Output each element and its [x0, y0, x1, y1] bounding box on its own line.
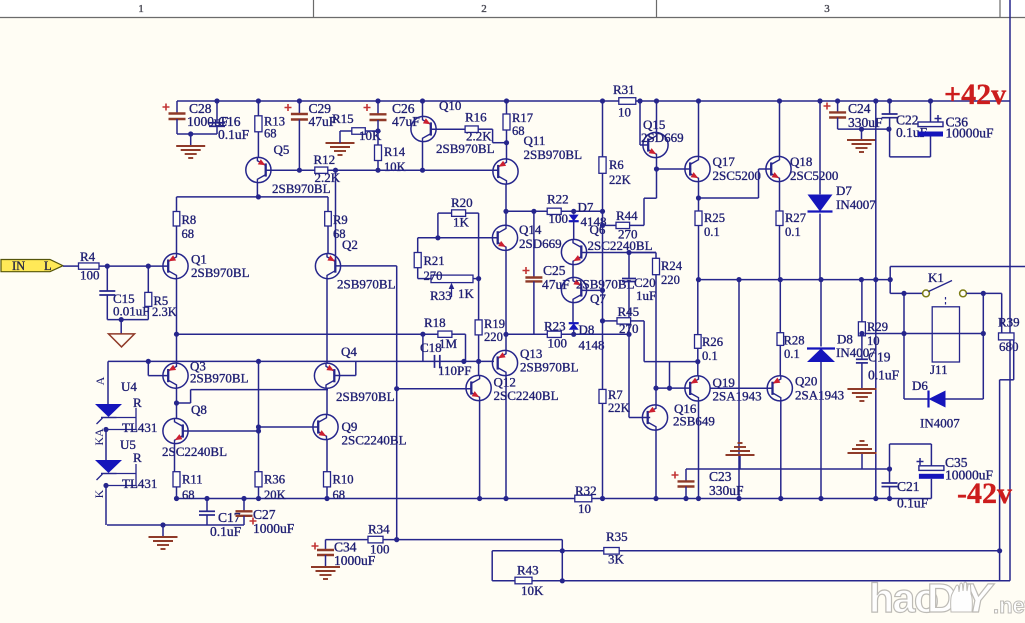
capacitor C24 (electrolytic) — [829, 111, 846, 113]
svg-text:R44: R44 — [616, 208, 638, 223]
resistor R31 — [619, 98, 636, 105]
wire C15 top wire — [106, 266, 108, 291]
svg-text:1M: 1M — [439, 336, 458, 351]
wire C25 bottom wire — [533, 281, 535, 334]
wire invgnd1 stub — [739, 455, 741, 469]
svg-text:1000uF: 1000uF — [334, 553, 376, 568]
wire R20 left vertical — [437, 213, 439, 238]
node earth node — [119, 317, 124, 322]
wire R18/C18 left vertical — [422, 334, 424, 361]
node R43/link node — [560, 578, 565, 583]
transistor Q8 — [163, 418, 188, 443]
wire ground row stub — [162, 525, 164, 537]
wire VAS top row — [506, 210, 603, 212]
wire C21 vertical top — [889, 444, 891, 483]
wire C26 top — [377, 101, 379, 114]
capacitor C34 (electrolytic) — [317, 549, 334, 551]
wire R16 jog down — [492, 129, 494, 143]
node Q8 base node — [256, 428, 261, 433]
wire R33 right wire — [473, 278, 479, 280]
node R6 rail node — [600, 98, 605, 103]
node Q8 base tap — [256, 359, 261, 364]
resistor R6 — [599, 157, 606, 174]
wire Q3 base jog down — [147, 361, 149, 375]
svg-text:10000uF: 10000uF — [946, 126, 995, 141]
wire Q18 base jog up — [758, 169, 760, 198]
wire R45 left wire — [603, 320, 618, 322]
svg-text:100: 100 — [548, 336, 568, 351]
svg-text:0.1: 0.1 — [784, 347, 800, 361]
node R14/base node — [375, 168, 380, 173]
resistor R15 — [352, 128, 366, 135]
wire C27 bottom wire — [243, 516, 245, 525]
node D7s top node — [571, 209, 576, 214]
resistor R21 — [414, 253, 421, 268]
wire U5 to ground row — [105, 486, 107, 526]
node C26 rail node — [375, 98, 380, 103]
wire speaker line — [890, 266, 1025, 268]
wire Q1 collector row — [177, 333, 438, 335]
wire C28 top — [176, 101, 178, 114]
wire C23 ground row — [686, 468, 890, 470]
transistor Q17 — [685, 156, 710, 181]
wire C22 bottom wire — [889, 118, 891, 157]
wire Q8 emitter to R11 — [174, 444, 176, 472]
wire C23 bottom wire — [685, 487, 687, 499]
resistor R22 — [547, 208, 561, 214]
wire Q6 to Q7 — [572, 265, 574, 278]
svg-text:2SA1943: 2SA1943 — [795, 388, 844, 403]
node R27/R28 node — [778, 277, 783, 282]
wire C16 top — [216, 101, 218, 123]
node R7 rail node — [600, 496, 605, 501]
transistor Q9 — [313, 414, 338, 439]
wire VAS vertical — [602, 211, 604, 389]
wire R39 left vertical — [1001, 293, 1003, 333]
svg-text:R33: R33 — [430, 288, 452, 303]
svg-text:K1: K1 — [928, 270, 944, 285]
wire C27 top wire — [243, 499, 245, 512]
resistor R19 — [475, 320, 482, 335]
node C22/C24 node — [886, 127, 891, 132]
wire Q20 base wire — [711, 387, 773, 389]
node R17 rail node — [504, 98, 509, 103]
sheet right border — [1009, 0, 1011, 581]
wire R5 bottom wire — [147, 306, 149, 319]
node C28 ground node — [188, 131, 193, 136]
transistor Q6 — [561, 239, 586, 264]
node coil right node — [981, 331, 986, 336]
diode D8 (IN4007) — [807, 349, 835, 363]
capacitor C26 (electrolytic) — [370, 113, 387, 115]
capacitor C28 (electrolytic) — [169, 112, 186, 114]
wire R44 jog up — [643, 198, 645, 225]
svg-text:680: 680 — [999, 339, 1019, 354]
svg-text:4148: 4148 — [579, 338, 605, 353]
node input node — [105, 264, 110, 269]
node C20 top node — [626, 250, 631, 255]
node C25 wire node — [503, 332, 508, 337]
wire Q16 base wire — [629, 417, 650, 419]
wire D7s to Q6 — [573, 221, 575, 239]
node C27 rail node — [241, 496, 246, 501]
svg-text:D7: D7 — [578, 200, 594, 215]
node C29/base node — [297, 168, 302, 173]
wire Q14 emitter top — [505, 211, 507, 225]
wire R20 left wire — [438, 212, 452, 214]
wire D6 left wire — [904, 398, 929, 400]
svg-text:0.1uF: 0.1uF — [868, 368, 900, 383]
relay K1 right contact — [960, 290, 967, 297]
svg-text:R34: R34 — [368, 522, 390, 537]
svg-text:Q7: Q7 — [590, 291, 606, 306]
wire R29 top wire — [861, 280, 863, 322]
node U5 cathode node — [103, 483, 108, 488]
capacitor C21 — [882, 482, 898, 484]
wire R26 bottom wire — [697, 348, 699, 375]
wire R17 top — [506, 101, 508, 114]
wire Q10 emitter top — [422, 101, 424, 116]
wire R35 row — [492, 550, 604, 552]
svg-text:D7: D7 — [836, 183, 852, 198]
wire C17 bottom wire — [206, 515, 208, 525]
transistor Q18 — [766, 156, 791, 181]
wire R43 row — [492, 580, 1010, 582]
node coil tap — [901, 291, 906, 296]
capacitor C22 — [882, 113, 898, 115]
svg-text:270: 270 — [618, 227, 638, 242]
node Q16 rail node — [653, 496, 658, 501]
sheet header rule — [0, 17, 1025, 19]
transistor Q13 — [492, 350, 517, 375]
svg-text:68: 68 — [333, 488, 346, 502]
node C23 rail node — [683, 496, 688, 501]
wire R21 jog — [418, 237, 438, 239]
wire R44 right wire — [630, 224, 644, 226]
resistor R26 — [695, 335, 702, 349]
svg-text:0.1uF: 0.1uF — [897, 496, 929, 511]
ground right inverted (inverted) — [860, 440, 865, 442]
R33 wiper arrow — [451, 285, 453, 298]
node Q17/Q18 node — [696, 195, 701, 200]
wire Q15 base drop — [639, 101, 641, 145]
node R15/C26 node — [375, 128, 380, 133]
wire output to speaker up — [889, 267, 891, 294]
node ground row node — [160, 522, 165, 527]
svg-text:R28: R28 — [784, 334, 805, 348]
capacitor C23 (electrolytic) — [678, 480, 695, 482]
wire bias spreader row — [506, 333, 629, 335]
wire C20 vertical top — [628, 253, 630, 279]
wire Q9 bottom wire — [326, 440, 328, 472]
wire D6 left vertical — [903, 334, 905, 400]
wire R45 row — [644, 361, 698, 363]
wire R21 to R33 — [418, 278, 431, 280]
node R35 node — [560, 548, 565, 553]
svg-text:R15: R15 — [332, 111, 354, 126]
svg-text:R14: R14 — [384, 145, 406, 159]
wire R43 link — [491, 551, 493, 581]
capacitor C19 — [856, 358, 868, 360]
svg-text:330uF: 330uF — [848, 115, 883, 130]
input connector IN L — [1, 260, 63, 272]
wire D6 right vertical — [982, 293, 984, 399]
svg-text:47uF: 47uF — [392, 114, 420, 129]
node R33/R19 node — [476, 276, 481, 281]
node Q10 collector node — [420, 168, 425, 173]
wire R24 bottom wire — [655, 275, 657, 388]
resistor R43 — [515, 577, 532, 584]
relay K1 left contact — [923, 290, 930, 297]
node Q20 rail node — [778, 496, 783, 501]
svg-text:68: 68 — [264, 127, 277, 141]
wire Q9 top wire — [326, 388, 328, 414]
svg-text:R9: R9 — [333, 213, 348, 227]
wire contact to R39 wire — [966, 292, 1001, 294]
wire D6 right wire — [946, 398, 984, 400]
wire Q13 collector down — [505, 376, 507, 499]
transistor Q1 — [163, 254, 188, 279]
node Q17 base node — [654, 166, 659, 171]
ground main ground — [149, 536, 178, 538]
relay K1 armature — [929, 281, 953, 292]
wire R14 bottom — [377, 161, 379, 171]
ground under C24 — [847, 139, 876, 141]
svg-text:2SB970BL: 2SB970BL — [436, 141, 495, 156]
node C21 top node — [887, 466, 892, 471]
node Q3 base tap — [146, 359, 151, 364]
resistor R39 — [999, 333, 1015, 340]
wire R29 bottom wire — [861, 336, 863, 360]
wire R9 to Q2 — [327, 226, 329, 254]
wire +42v rail — [177, 100, 1010, 102]
node Q9 base tap — [256, 424, 261, 429]
svg-text:R12: R12 — [314, 152, 336, 167]
transistor Q10 — [411, 116, 436, 141]
svg-text:10K: 10K — [384, 160, 406, 174]
svg-text:R21: R21 — [424, 254, 445, 268]
wire R45 right wire — [631, 320, 645, 322]
wire Q18 base wire — [759, 168, 773, 170]
node R34 right node — [394, 537, 399, 542]
node mid link node — [736, 277, 741, 282]
svg-text:R19: R19 — [484, 317, 505, 331]
wire ladder link — [669, 362, 671, 389]
svg-text:2SB649: 2SB649 — [673, 414, 715, 429]
wire R39 right vertical — [1013, 340, 1015, 380]
resistor R28 — [777, 333, 784, 346]
node C17 rail node — [204, 496, 209, 501]
node R10 rail node — [324, 496, 329, 501]
node R45 node — [600, 318, 605, 323]
resistor R24 — [653, 258, 660, 274]
resistor R25 — [695, 211, 702, 226]
svg-text:C19: C19 — [868, 350, 891, 365]
svg-text:K: K — [92, 489, 106, 498]
transistor Q4 — [314, 363, 339, 388]
potentiometer R33 — [431, 275, 473, 283]
resistor R23 — [547, 331, 561, 337]
wire relay feed — [890, 292, 926, 294]
capacitor C20 — [622, 278, 636, 280]
wire Q16 top wire — [655, 388, 657, 405]
svg-text:1: 1 — [138, 3, 144, 15]
wire Q18 base jog — [699, 197, 759, 199]
node C25 top node — [531, 209, 536, 214]
svg-text:R27: R27 — [785, 211, 806, 225]
wire C20 vertical bottom — [628, 282, 630, 335]
wire R7 bottom wire — [602, 403, 604, 498]
wire Q3 collector down — [176, 388, 178, 418]
resistor R27 — [776, 211, 783, 226]
wire Q15 emitter jog — [644, 197, 657, 199]
wire Q15 base wire — [640, 144, 648, 146]
wire R39 to feedback — [999, 380, 1001, 581]
node Q15 collector rail node — [654, 98, 659, 103]
svg-text:C18: C18 — [420, 340, 442, 355]
svg-text:2SC2240BL: 2SC2240BL — [494, 388, 559, 403]
node bus rail node2 — [873, 496, 878, 501]
resistor R34 — [368, 536, 383, 543]
wire D7s top wire — [573, 211, 575, 214]
resistor R9 — [325, 212, 332, 227]
node R25/Q19 node — [696, 277, 701, 282]
wire ground row — [107, 524, 244, 526]
svg-text:R24: R24 — [661, 259, 683, 273]
svg-text:J11: J11 — [930, 362, 948, 377]
node C22 rail node — [887, 98, 892, 103]
wire feedback link — [561, 540, 563, 581]
svg-text:R39: R39 — [998, 315, 1020, 330]
node Q13 rail node — [503, 496, 508, 501]
wire C34 bottom wire — [325, 555, 327, 566]
node C20 bottom node — [626, 332, 631, 337]
svg-text:TL431: TL431 — [122, 420, 157, 435]
power ground input earth (earth triangle) — [109, 334, 135, 347]
diode D8 (4148) — [569, 323, 579, 330]
wire IN to R4 — [63, 265, 79, 267]
wire R25 bottom — [698, 226, 700, 280]
node Q3/Q8 node — [174, 400, 179, 405]
wire R20 right wire — [466, 212, 479, 214]
resistor R10 — [324, 472, 331, 487]
capacitor C35 (large electrolytic) — [919, 466, 944, 471]
wire D8 bottom wire — [820, 362, 822, 499]
svg-text:C27: C27 — [253, 507, 276, 522]
svg-text:2SC2240BL: 2SC2240BL — [342, 433, 407, 448]
svg-text:1000uF: 1000uF — [253, 521, 295, 536]
wire earth stub — [120, 320, 122, 334]
capacitor C36 (large electrolytic) — [918, 122, 943, 127]
wire C35 top wire — [930, 444, 932, 466]
ground above C23 (inverted) — [738, 442, 743, 444]
wire Q15 emitter down — [656, 158, 658, 199]
svg-text:Q8: Q8 — [191, 402, 207, 417]
node coil left node — [901, 331, 906, 336]
wire C23 top wire — [685, 469, 687, 481]
resistor R29 — [858, 322, 865, 336]
svg-text:2SC2240BL: 2SC2240BL — [162, 444, 227, 459]
wire Q4 base jog up — [355, 362, 357, 376]
capacitor C25 (electrolytic) — [525, 276, 542, 278]
svg-text:100: 100 — [549, 211, 569, 226]
svg-text:R31: R31 — [613, 82, 635, 97]
svg-text:100: 100 — [80, 268, 100, 283]
node R5 node — [146, 264, 151, 269]
node D8 output node — [818, 277, 823, 282]
wire R13 top — [257, 101, 259, 116]
wire R6 bottom wire — [602, 173, 604, 211]
wire Q19 collector down — [698, 401, 700, 499]
wire R4 to Q1 base — [99, 265, 168, 267]
capacitor C16 — [209, 122, 225, 124]
svg-text:2SB970BL: 2SB970BL — [336, 389, 395, 404]
wire C35 loop top — [890, 443, 932, 445]
resistor R36 — [255, 472, 262, 487]
svg-text:68: 68 — [182, 488, 195, 502]
wire Q1 collector down — [176, 279, 178, 363]
svg-text:R6: R6 — [609, 158, 624, 172]
transistor Q7 — [561, 277, 586, 302]
svg-text:U4: U4 — [121, 379, 137, 394]
wire -42v rail — [177, 498, 932, 500]
svg-text:2: 2 — [481, 3, 487, 15]
wire D8s bottom wire — [573, 330, 575, 335]
wire Q5 collector — [256, 183, 258, 197]
wire Q3 collector jog — [177, 402, 191, 404]
node Q11/Q14 node — [503, 209, 508, 214]
transistor Q16 — [642, 405, 667, 430]
wire C21 vertical bottom — [889, 487, 891, 499]
node feedback/Q12 node — [394, 386, 399, 391]
wire R16 right wire — [478, 128, 492, 130]
shunt regulator U4 (TL431) — [95, 404, 122, 417]
wire feedback vertical — [396, 266, 398, 540]
wire R18 right wire — [452, 333, 466, 335]
node Q10 rail node — [420, 98, 425, 103]
svg-text:IN4007: IN4007 — [920, 416, 960, 431]
wire Q14 collector down — [505, 250, 507, 350]
node R20/R21 node — [435, 235, 440, 240]
wire Q2 base to feedback — [336, 265, 397, 267]
svg-text:0.1: 0.1 — [702, 349, 718, 363]
wire C22/C36 join — [890, 156, 931, 158]
node bus output node — [873, 277, 878, 282]
wire Q17 collector top — [698, 101, 700, 156]
node Q15 base rail node — [637, 98, 642, 103]
resistor R17 — [503, 114, 510, 130]
svg-text:R8: R8 — [182, 213, 197, 227]
wire R13 to Q5 — [257, 132, 259, 158]
wire invgnd2 stub — [861, 453, 863, 469]
svg-text:Q11: Q11 — [524, 133, 546, 148]
wire R15 ground stub — [339, 131, 341, 143]
wire C16 bottom — [216, 126, 218, 134]
svg-text:L: L — [44, 259, 52, 273]
svg-text:R: R — [133, 450, 142, 465]
svg-text:10: 10 — [618, 105, 631, 120]
node R24/Q16 node — [653, 386, 658, 391]
ground R15 ground — [326, 142, 355, 144]
wire C24 ground jog — [838, 128, 889, 130]
wire R21 top wire — [417, 238, 419, 253]
node R11 rail node — [174, 496, 179, 501]
svg-text:R29: R29 — [867, 320, 888, 334]
wire R15 right wire — [365, 130, 378, 132]
wire Q16 bottom wire — [655, 430, 657, 498]
svg-text:0.1uF: 0.1uF — [218, 127, 250, 142]
svg-text:R22: R22 — [547, 192, 569, 207]
